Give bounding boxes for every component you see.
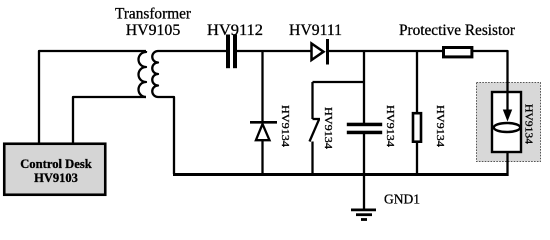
svg-text:HV9134: HV9134 — [434, 105, 446, 148]
svg-text:HV9134: HV9134 — [384, 105, 396, 148]
svg-text:HV9134: HV9134 — [322, 107, 334, 150]
svg-text:HV9103: HV9103 — [34, 170, 78, 185]
svg-text:HV9134: HV9134 — [523, 104, 535, 145]
svg-text:HV9112: HV9112 — [207, 22, 263, 39]
svg-text:HV9134: HV9134 — [279, 105, 291, 148]
svg-text:Transformer: Transformer — [115, 6, 192, 23]
svg-text:Protective Resistor: Protective Resistor — [399, 22, 516, 39]
svg-text:GND1: GND1 — [384, 193, 420, 208]
svg-text:Control Desk: Control Desk — [20, 156, 92, 171]
svg-text:HV9105: HV9105 — [126, 22, 181, 39]
svg-text:HV9111: HV9111 — [289, 22, 342, 39]
